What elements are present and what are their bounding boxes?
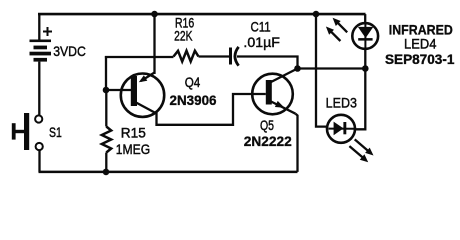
svg-text:2N2222: 2N2222 [244, 133, 292, 149]
svg-text:C11: C11 [251, 18, 271, 34]
wire base junction up [105, 56, 107, 90]
wire R16 to C11 [199, 55, 230, 57]
wire base junction run to R16 [105, 56, 174, 58]
resistor R16 zigzag [174, 51, 199, 62]
wire switch to bottom rail [38, 150, 40, 172]
resistor R15 top lead [105, 90, 107, 127]
svg-text:3VDC: 3VDC [53, 43, 86, 59]
switch S1 pushbutton [12, 113, 43, 150]
node junction dot top-left [151, 11, 158, 18]
capacitor C11 right curved plate [235, 47, 239, 66]
battery B1 3VDC plates [30, 40, 52, 62]
svg-text:LED3: LED3 [326, 94, 357, 110]
svg-text:22K: 22K [174, 28, 193, 44]
LED3 [327, 115, 355, 143]
svg-text:Q5: Q5 [260, 117, 274, 133]
wire collector node to LED node [298, 67, 366, 69]
svg-text:1MEG: 1MEG [116, 141, 150, 157]
node Q5 collector junction dot [294, 65, 301, 72]
wire Q4 collector to Q5 base [157, 94, 266, 125]
svg-text:Q4: Q4 [185, 74, 201, 90]
wire top rail [38, 13, 366, 16]
transistor Q4 2N3906 [106, 73, 164, 117]
capacitor C11 left plate [229, 48, 232, 65]
battery plus sign [43, 27, 52, 36]
wire LED4 anode feed [364, 14, 366, 23]
wire LED3 anode feed [316, 14, 328, 127]
LED3 emission arrow lower [349, 146, 368, 162]
transistor Q5 2N2222 [252, 69, 297, 115]
node Q4 base junction dot [103, 87, 110, 94]
wire battery to switch [38, 62, 40, 116]
wire battery top drop [38, 14, 40, 40]
wire Q5 emitter to bottom rail [296, 114, 298, 172]
LED4 infrared [352, 23, 378, 49]
wire C11 to Q5 collector node [237, 57, 298, 69]
resistor R15 bottom lead [105, 153, 107, 172]
wire Q4 emitter feed [153, 14, 155, 74]
LED3 emission arrow upper [355, 139, 374, 155]
LED4 emission arrow upper [333, 18, 348, 33]
resistor R15 zigzag [102, 127, 111, 153]
svg-text:SEP8703-1: SEP8703-1 [385, 51, 455, 67]
node LED cathode junction dot [362, 65, 369, 72]
node junction dot top-right [313, 11, 320, 18]
svg-text:LED4: LED4 [404, 36, 437, 52]
svg-text:S1: S1 [49, 124, 62, 140]
svg-text:.01µF: .01µF [243, 34, 280, 50]
svg-text:R15: R15 [121, 124, 146, 140]
wire LED3 cathode to node [355, 69, 366, 130]
svg-text:2N3906: 2N3906 [170, 92, 217, 108]
LED4 emission arrow lower [326, 27, 341, 42]
wire LED4 cathode to node [364, 49, 366, 69]
node junction dot bottom rail [103, 169, 110, 176]
wire bottom rail [39, 171, 298, 174]
